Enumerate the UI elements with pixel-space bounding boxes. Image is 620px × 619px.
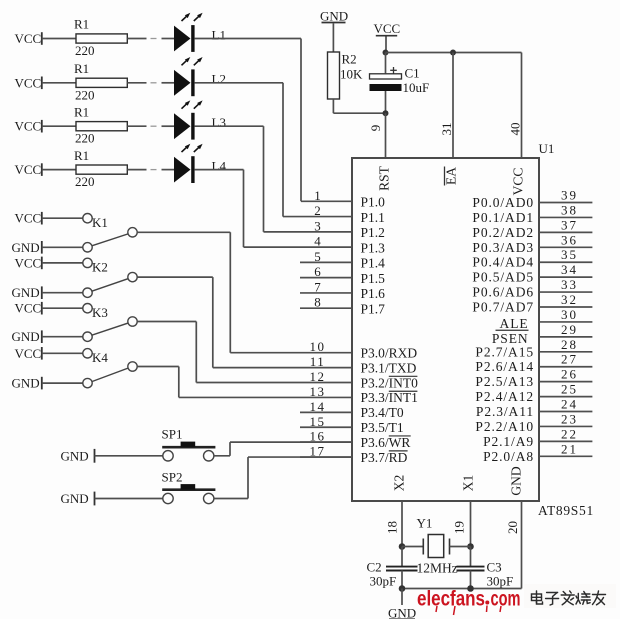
watermark logo elecfans.com xyxy=(417,588,521,616)
power VCC stub row 2 xyxy=(15,75,42,90)
svg-text:GND: GND xyxy=(61,491,89,506)
svg-text:10: 10 xyxy=(310,339,326,354)
pin 34 lead and label P0.5/AD5 xyxy=(472,262,592,285)
svg-text:5: 5 xyxy=(314,249,321,264)
watermark chinese text xyxy=(532,591,606,605)
svg-text:GND: GND xyxy=(12,285,40,300)
svg-text:P2.4/A12: P2.4/A12 xyxy=(475,389,534,404)
wire VCC to R1 row 2 xyxy=(42,82,76,84)
LED L2 xyxy=(174,57,226,96)
wire GND to K4 xyxy=(42,382,83,384)
svg-text:9: 9 xyxy=(368,125,383,132)
svg-text:P1.4: P1.4 xyxy=(361,256,386,271)
svg-text:VCC: VCC xyxy=(15,346,42,361)
resistor R1 (row 4) xyxy=(74,148,127,189)
svg-text:VCC: VCC xyxy=(511,168,526,196)
svg-text:K3: K3 xyxy=(92,305,108,320)
svg-text:35: 35 xyxy=(561,247,578,262)
wire R2 to node RST xyxy=(333,99,385,113)
svg-text:P0.2/AD2: P0.2/AD2 xyxy=(472,225,534,240)
svg-text:K2: K2 xyxy=(92,260,108,275)
svg-text:P3.5/T1: P3.5/T1 xyxy=(361,420,404,435)
pin 36 lead and label P0.3/AD3 xyxy=(472,232,592,255)
svg-text:4: 4 xyxy=(314,234,321,249)
svg-text:220: 220 xyxy=(75,131,95,146)
pin 38 lead and label P0.1/AD1 xyxy=(472,202,592,225)
svg-text:R2: R2 xyxy=(342,52,357,67)
wire GND to R2 xyxy=(332,23,334,52)
svg-text:P0.5/AD5: P0.5/AD5 xyxy=(472,270,534,285)
svg-text:10uF: 10uF xyxy=(403,80,430,95)
pin 6 lead and label P1.5 xyxy=(300,264,385,286)
svg-text:VCC: VCC xyxy=(15,211,42,226)
svg-text:37: 37 xyxy=(561,217,578,232)
svg-text:36: 36 xyxy=(561,232,578,247)
svg-text:P0.4/AD4: P0.4/AD4 xyxy=(472,255,534,270)
node VCC junction xyxy=(383,50,389,56)
pin label X1 xyxy=(461,475,476,492)
wire pin 18 (X2) xyxy=(385,501,403,547)
svg-text:P2.3/A11: P2.3/A11 xyxy=(476,404,534,419)
svg-text:P2.2/A10: P2.2/A10 xyxy=(475,419,534,434)
crystal Y1 xyxy=(402,516,471,576)
svg-text:P0.0/AD0: P0.0/AD0 xyxy=(472,195,534,210)
svg-text:AT89S51: AT89S51 xyxy=(538,503,594,518)
wire VCC down xyxy=(385,37,387,53)
svg-text:com: com xyxy=(491,588,521,611)
svg-text:16: 16 xyxy=(310,429,326,444)
svg-text:K1: K1 xyxy=(92,215,108,230)
capacitor C2 xyxy=(367,547,418,589)
node pin31 junction xyxy=(450,50,456,56)
pin 15 lead and label P3.5/T1 xyxy=(300,414,404,435)
wire pin 40 (VCC) xyxy=(508,53,523,159)
svg-text:SP2: SP2 xyxy=(162,469,183,484)
power VCC stub switch K1 xyxy=(15,211,42,226)
pin 16 lead and label P3.6/WR xyxy=(300,429,411,450)
svg-text:P0.7/AD7: P0.7/AD7 xyxy=(472,300,534,315)
svg-text:GND: GND xyxy=(388,606,416,619)
node C2 ground junction xyxy=(399,585,406,592)
svg-text:U1: U1 xyxy=(539,141,555,156)
power GND stub switch K4 xyxy=(12,376,42,391)
svg-text:X1: X1 xyxy=(461,475,476,492)
wire K3 to pin 12 xyxy=(137,322,352,383)
wire R1 to LED L3 xyxy=(127,125,174,127)
node RST junction xyxy=(383,110,389,116)
svg-text:15: 15 xyxy=(310,414,326,429)
pin label X2 xyxy=(392,475,407,492)
wire K4 to pin 13 xyxy=(137,367,352,398)
svg-text:R1: R1 xyxy=(74,104,89,119)
power GND stub SP2 xyxy=(61,491,95,506)
power GND stub switch K1 xyxy=(12,240,42,255)
svg-text:C2: C2 xyxy=(367,560,382,575)
wire pin 19 (X1) xyxy=(452,501,471,547)
ground (top, R2) xyxy=(320,9,348,24)
svg-text:29: 29 xyxy=(561,322,578,337)
pin 27 lead and label P2.6/A14 xyxy=(475,352,592,375)
power GND stub switch K2 xyxy=(12,285,42,300)
svg-text:GND: GND xyxy=(12,240,40,255)
svg-text:Y1: Y1 xyxy=(417,516,433,531)
svg-text:33: 33 xyxy=(561,277,578,292)
pin 26 lead and label P2.5/A13 xyxy=(475,367,592,390)
svg-text:GND: GND xyxy=(12,329,40,344)
pin 4 lead and label P1.3 xyxy=(244,234,386,256)
wire K1 to pin 10 xyxy=(137,232,352,352)
svg-text:RST: RST xyxy=(377,165,392,191)
pin 37 lead and label P0.2/AD2 xyxy=(472,217,592,240)
svg-text:L1: L1 xyxy=(212,27,226,42)
pin label VCC (40) xyxy=(511,168,526,196)
svg-text:P2.1/A9: P2.1/A9 xyxy=(483,434,534,449)
svg-text:26: 26 xyxy=(561,367,578,382)
pin 7 lead and label P1.6 xyxy=(300,279,385,301)
pin label RST xyxy=(377,165,392,191)
svg-text:P2.7/A15: P2.7/A15 xyxy=(475,344,534,359)
svg-text:21: 21 xyxy=(561,441,578,456)
power VCC stub row 3 xyxy=(15,119,42,134)
wire LED L2 to pin 2 xyxy=(195,83,283,217)
svg-text:P3.1/TXD: P3.1/TXD xyxy=(361,360,417,375)
pin 25 lead and label P2.4/A12 xyxy=(475,382,592,405)
ground (bottom) xyxy=(388,589,416,619)
power VCC (top) xyxy=(374,21,401,36)
svg-text:13: 13 xyxy=(310,384,326,399)
LED L4 xyxy=(174,144,226,183)
svg-text:VCC: VCC xyxy=(15,75,42,90)
svg-text:24: 24 xyxy=(561,397,578,412)
svg-text:VCC: VCC xyxy=(374,21,401,36)
resistor R1 (row 3) xyxy=(74,104,127,145)
svg-text:P2.6/A14: P2.6/A14 xyxy=(475,359,534,374)
pin 1 lead and label P1.0 xyxy=(301,188,385,210)
pin 17 lead and label P3.7/RD xyxy=(300,444,408,465)
pushbutton SP2 xyxy=(162,469,216,503)
pin 32 lead and label P0.7/AD7 xyxy=(472,292,592,315)
svg-text:VCC: VCC xyxy=(15,255,42,270)
pin 33 lead and label P0.6/AD6 xyxy=(472,277,592,300)
svg-text:P1.0: P1.0 xyxy=(361,195,386,210)
wire VCC to R1 row 1 xyxy=(42,38,76,40)
svg-text:6: 6 xyxy=(314,264,321,279)
svg-text:C1: C1 xyxy=(405,66,420,81)
svg-text:20: 20 xyxy=(505,521,520,534)
svg-text:ALE: ALE xyxy=(500,316,529,331)
pin 14 lead and label P3.4/T0 xyxy=(300,399,404,420)
svg-text:P0.3/AD3: P0.3/AD3 xyxy=(472,240,534,255)
svg-text:32: 32 xyxy=(561,292,578,307)
resistor R1 (row 2) xyxy=(74,61,127,102)
capacitor C1 xyxy=(370,66,430,96)
svg-text:7: 7 xyxy=(314,279,321,294)
svg-text:VCC: VCC xyxy=(15,31,42,46)
wire ground rail xyxy=(402,588,471,590)
pushbutton SP1 xyxy=(162,427,216,461)
svg-text:31: 31 xyxy=(439,123,454,136)
svg-text:C3: C3 xyxy=(487,560,502,575)
wire K2 to pin 11 xyxy=(137,277,352,368)
wire GND to SP1 xyxy=(95,455,163,457)
svg-text:GND: GND xyxy=(61,449,89,464)
svg-text:P1.5: P1.5 xyxy=(361,271,386,286)
wire SP1 to pin 16 xyxy=(214,442,352,456)
wire LED L1 to pin 1 xyxy=(195,39,301,202)
pin 8 lead and label P1.7 xyxy=(300,295,385,317)
svg-text:L4: L4 xyxy=(212,158,227,173)
wire VCC to K2 xyxy=(42,262,83,264)
wire pin 9 (RST) xyxy=(368,113,386,158)
pin 22 lead and label P2.1/A9 xyxy=(483,426,592,449)
switch K4 xyxy=(83,349,137,388)
svg-text:8: 8 xyxy=(314,295,321,310)
power VCC stub switch K2 xyxy=(15,255,42,270)
power VCC stub row 4 xyxy=(15,162,42,177)
svg-text:R1: R1 xyxy=(74,148,89,163)
resistor R2 xyxy=(328,52,364,100)
pin 24 lead and label P2.3/A11 xyxy=(476,397,592,420)
pin label GND (20) xyxy=(509,466,524,495)
svg-text:P1.2: P1.2 xyxy=(361,225,385,240)
svg-text:2: 2 xyxy=(314,203,321,218)
wire VCC rail xyxy=(386,52,522,54)
wire R1 to LED L1 xyxy=(127,38,174,40)
svg-text:VCC: VCC xyxy=(15,162,42,177)
svg-text:17: 17 xyxy=(310,444,326,459)
svg-text:11: 11 xyxy=(310,354,326,369)
pin 3 lead and label P1.2 xyxy=(264,218,385,240)
svg-text:GND: GND xyxy=(509,466,524,495)
node X2 junction xyxy=(399,543,406,550)
LED L3 xyxy=(174,100,226,139)
svg-text:220: 220 xyxy=(75,87,95,102)
wire GND to K3 xyxy=(42,336,83,338)
svg-text:P1.1: P1.1 xyxy=(361,210,385,225)
svg-text:K4: K4 xyxy=(92,350,108,365)
switch K2 xyxy=(83,258,137,297)
resistor R1 (row 1) xyxy=(74,17,127,58)
pin 23 lead and label P2.2/A10 xyxy=(475,411,592,434)
wire GND to SP2 xyxy=(95,498,163,500)
svg-text:L2: L2 xyxy=(212,72,226,87)
svg-text:EA: EA xyxy=(444,167,459,185)
wire LED L3 to pin 3 xyxy=(195,126,264,232)
svg-text:L3: L3 xyxy=(212,115,226,130)
pin 13 lead and label P3.3/INT1 xyxy=(310,384,418,405)
pin 35 lead and label P0.4/AD4 xyxy=(472,247,592,270)
svg-text:VCC: VCC xyxy=(15,119,42,134)
wire VCC to K3 xyxy=(42,307,83,309)
svg-text:P2.5/A13: P2.5/A13 xyxy=(475,374,534,389)
svg-text:P3.3/INT1: P3.3/INT1 xyxy=(361,390,418,405)
power VCC stub switch K3 xyxy=(15,301,42,316)
wire VCC to K1 xyxy=(42,217,83,219)
svg-text:10K: 10K xyxy=(340,67,363,82)
svg-text:P3.0/RXD: P3.0/RXD xyxy=(361,346,418,361)
node C3 ground junction xyxy=(467,585,474,592)
svg-text:14: 14 xyxy=(310,399,326,414)
pin 10 lead and label P3.0/RXD xyxy=(310,339,418,360)
wire R1 to LED L4 xyxy=(127,169,174,171)
svg-text:P1.7: P1.7 xyxy=(361,301,386,316)
wire pin 20 (GND) xyxy=(471,501,522,589)
power VCC stub row 1 xyxy=(15,31,42,46)
wire GND to K1 xyxy=(42,246,83,248)
svg-text:34: 34 xyxy=(561,262,578,277)
svg-text:P0.1/AD1: P0.1/AD1 xyxy=(472,210,534,225)
pin 12 lead and label P3.2/INT0 xyxy=(310,369,419,390)
op-amp U1 designator xyxy=(539,141,555,156)
svg-text:P1.6: P1.6 xyxy=(361,286,386,301)
svg-text:GND: GND xyxy=(320,9,348,24)
wire SP2 to pin 17 xyxy=(214,457,352,498)
IC U1 AT89S51 body xyxy=(352,158,539,501)
wire LED L4 to pin 4 xyxy=(195,170,244,248)
pin 11 lead and label P3.1/TXD xyxy=(310,354,417,375)
svg-text:22: 22 xyxy=(561,426,578,441)
pin 2 lead and label P1.1 xyxy=(283,203,385,225)
svg-text:P3.6/WR: P3.6/WR xyxy=(361,435,411,450)
svg-text:X2: X2 xyxy=(392,475,407,492)
svg-text:30: 30 xyxy=(561,307,578,322)
wire C1 to node xyxy=(385,91,387,113)
svg-text:220: 220 xyxy=(75,174,95,189)
wire VCC to R1 row 4 xyxy=(42,169,76,171)
svg-text:30pF: 30pF xyxy=(370,574,397,589)
capacitor C3 xyxy=(457,547,514,589)
pin 30 lead and label ALE xyxy=(500,307,593,331)
wire GND to K2 xyxy=(42,292,83,294)
svg-text:3: 3 xyxy=(314,218,321,233)
wire VCC to K4 xyxy=(42,352,83,354)
svg-text:R1: R1 xyxy=(74,61,89,76)
svg-text:19: 19 xyxy=(452,521,467,534)
svg-text:12: 12 xyxy=(310,369,326,384)
svg-text:P3.4/T0: P3.4/T0 xyxy=(361,405,404,420)
svg-text:23: 23 xyxy=(561,411,578,426)
wire pin 31 (EA) xyxy=(439,53,454,159)
wire R1 to LED L2 xyxy=(127,82,174,84)
svg-text:30pF: 30pF xyxy=(487,574,514,589)
svg-text:25: 25 xyxy=(561,382,578,397)
svg-text:220: 220 xyxy=(75,43,95,58)
svg-text:27: 27 xyxy=(561,352,578,367)
svg-text:P3.7/RD: P3.7/RD xyxy=(361,450,408,465)
svg-text:40: 40 xyxy=(508,123,523,136)
svg-text:28: 28 xyxy=(561,337,578,352)
watermark backdrop xyxy=(524,584,616,608)
pin label EA xyxy=(444,167,459,186)
power GND stub SP1 xyxy=(61,449,95,464)
LED L1 xyxy=(174,13,226,52)
pin 39 lead and label P0.0/AD0 xyxy=(472,188,592,211)
node X1 junction xyxy=(467,543,474,550)
power GND stub switch K3 xyxy=(12,329,42,344)
pin 21 lead and label P2.0/A8 xyxy=(483,441,592,464)
svg-text:VCC: VCC xyxy=(15,301,42,316)
pin 28 lead and label P2.7/A15 xyxy=(475,337,592,360)
svg-text:18: 18 xyxy=(385,521,400,534)
svg-text:SP1: SP1 xyxy=(162,427,183,442)
svg-text:GND: GND xyxy=(12,376,40,391)
switch K3 xyxy=(83,304,137,342)
IC part number AT89S51 xyxy=(538,503,594,518)
svg-text:38: 38 xyxy=(561,202,578,217)
svg-text:elecfans: elecfans xyxy=(417,588,485,611)
svg-text:P0.6/AD6: P0.6/AD6 xyxy=(472,285,534,300)
svg-text:12MHz: 12MHz xyxy=(417,561,458,576)
wire VCC to R1 row 3 xyxy=(42,125,76,127)
pin 29 lead and label PSEN xyxy=(492,322,593,346)
power VCC stub switch K4 xyxy=(15,346,42,361)
svg-text:39: 39 xyxy=(561,188,578,203)
svg-text:P1.3: P1.3 xyxy=(361,240,386,255)
wire VCC to C1 xyxy=(385,53,387,74)
switch K1 xyxy=(83,214,137,253)
svg-text:1: 1 xyxy=(314,188,321,203)
svg-text:P2.0/A8: P2.0/A8 xyxy=(483,449,534,464)
svg-text:P3.2/INT0: P3.2/INT0 xyxy=(361,375,419,390)
pin 5 lead and label P1.4 xyxy=(300,249,385,271)
svg-text:R1: R1 xyxy=(74,17,89,32)
